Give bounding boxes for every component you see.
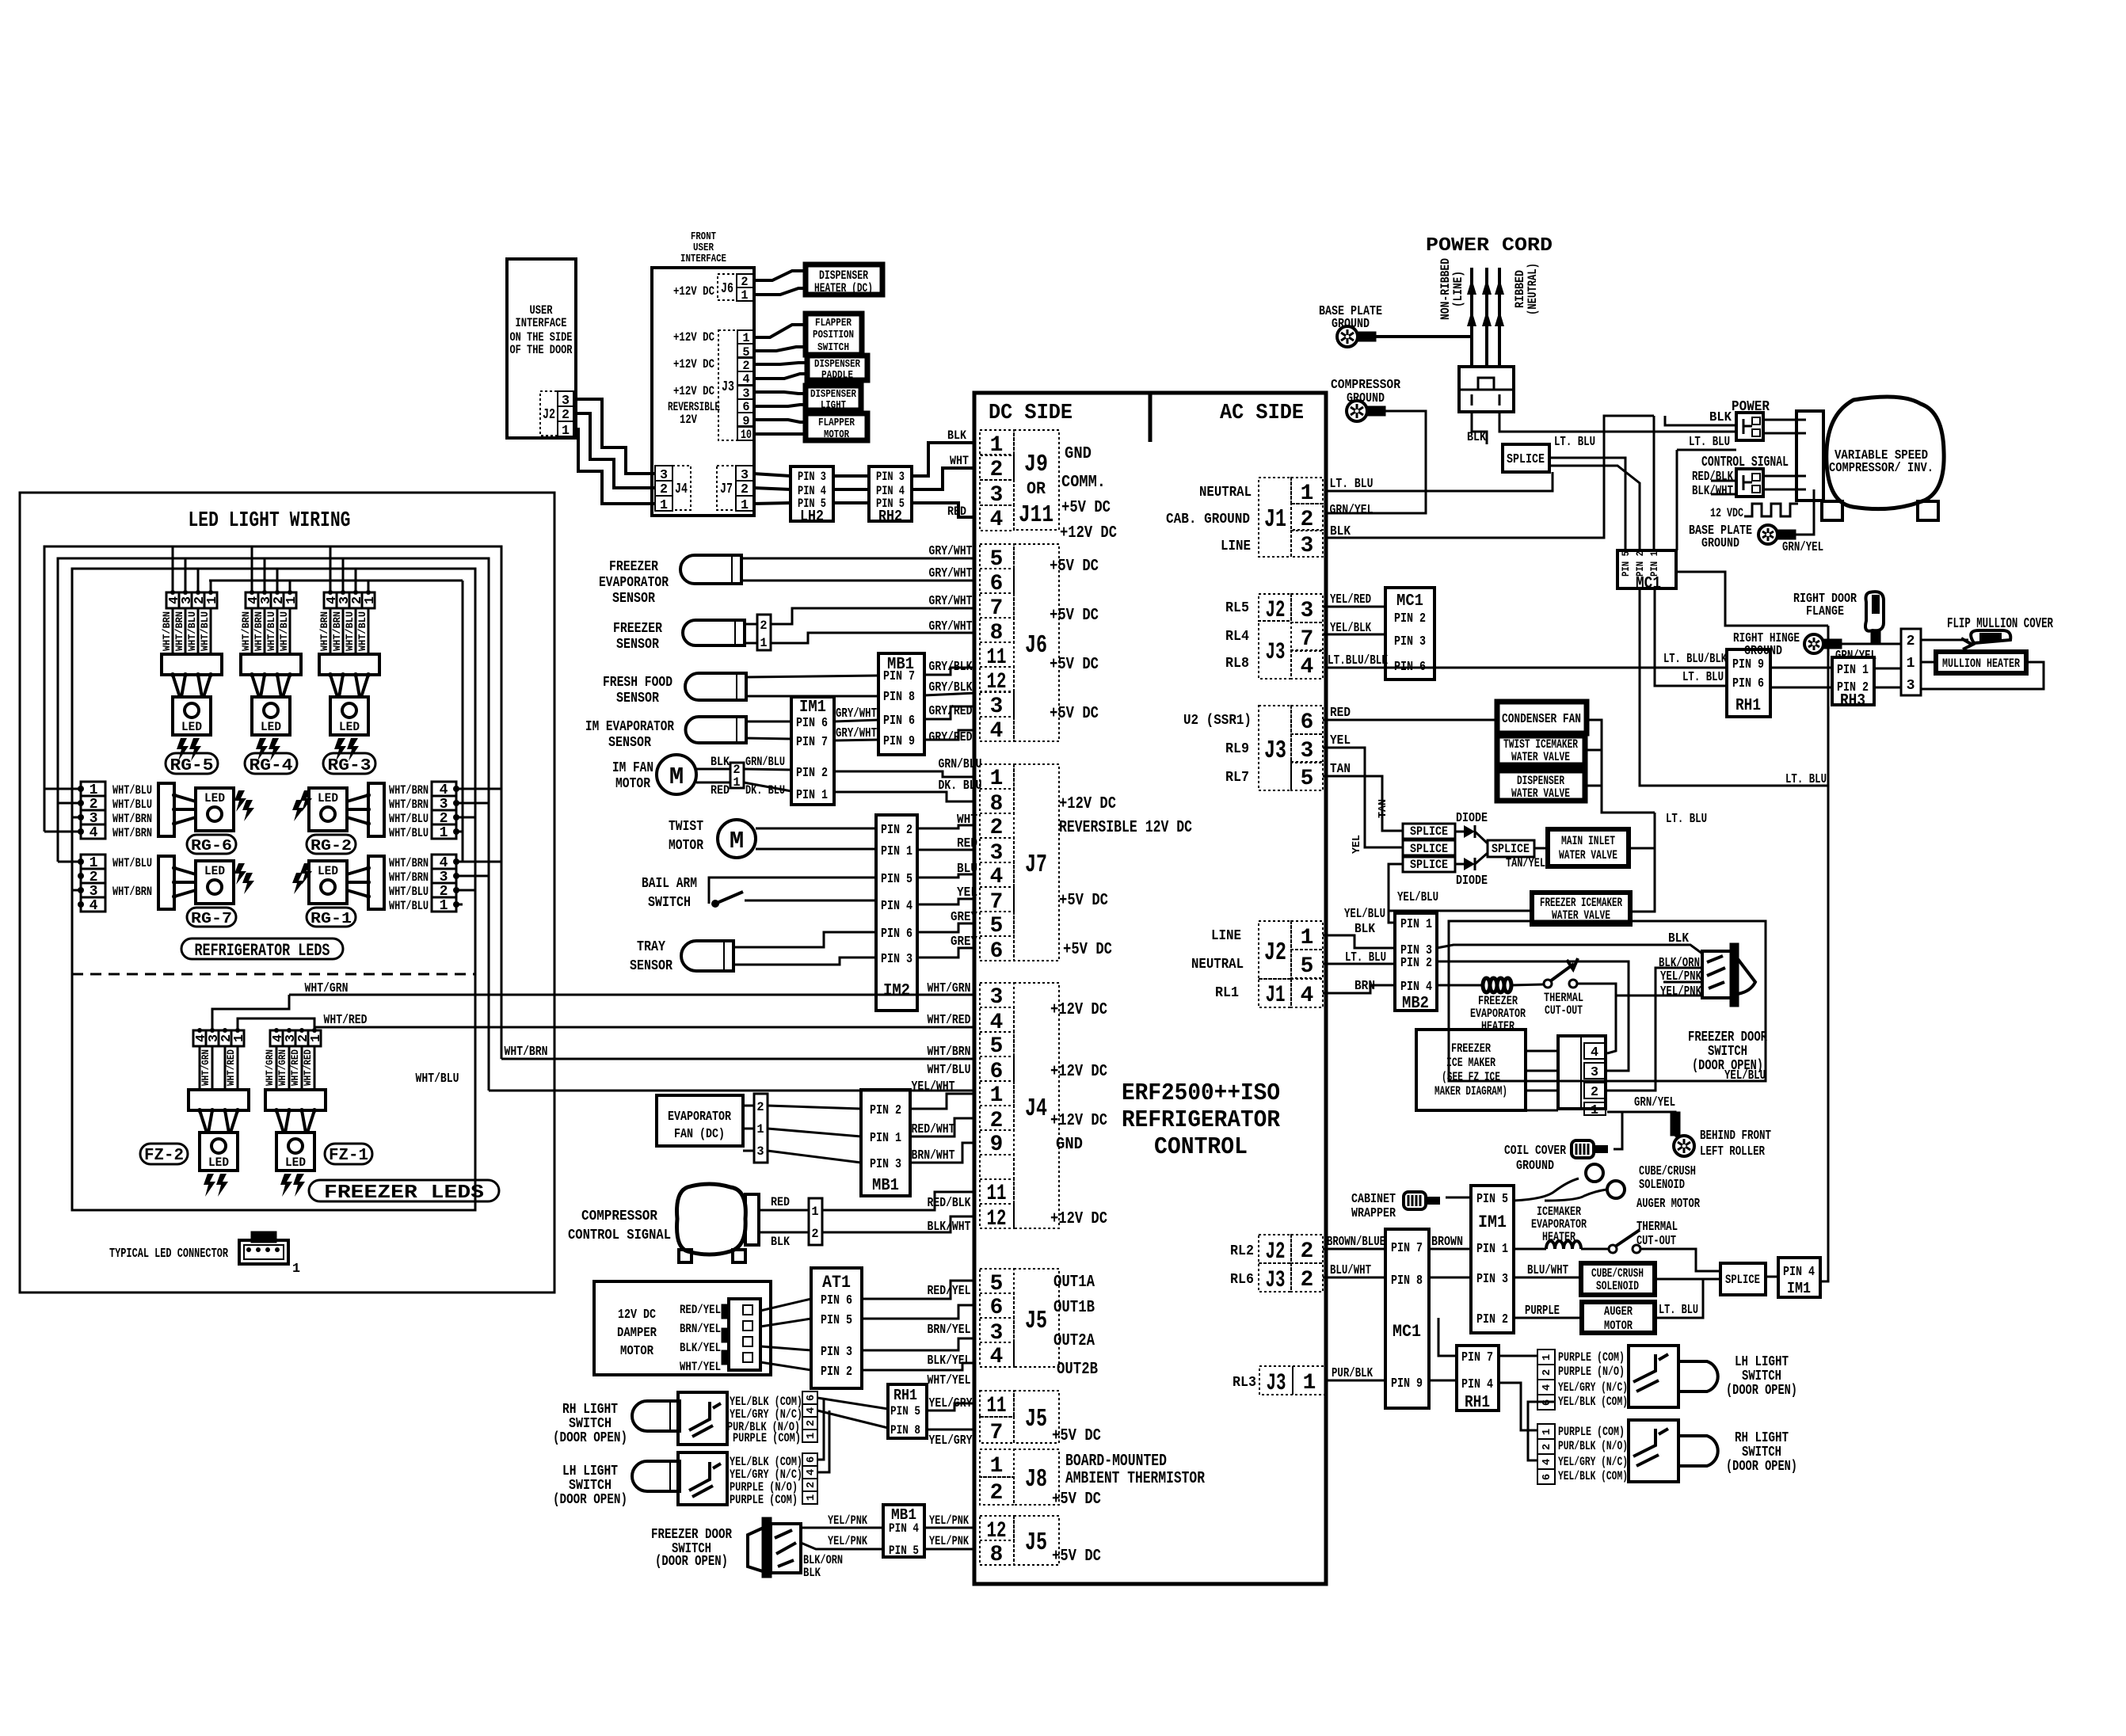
svg-text:WHT/BRN: WHT/BRN — [112, 812, 152, 826]
RH light switch switch blades — [689, 1402, 710, 1430]
RG-2 funnel wires — [347, 795, 368, 801]
svg-text:PIN 3: PIN 3 — [821, 1345, 852, 1360]
svg-text:FREEZER: FREEZER — [1451, 1041, 1492, 1056]
svg-text:GRY/BLK: GRY/BLK — [929, 660, 973, 675]
svg-text:1: 1 — [733, 775, 740, 790]
svg-text:EVAPORATOR: EVAPORATOR — [668, 1110, 731, 1125]
base plate ground lug top — [1337, 326, 1358, 347]
box DISPENSER PADDLE — [807, 356, 867, 380]
svg-text:DC SIDE: DC SIDE — [989, 401, 1073, 424]
RG-3 lightning bolts — [334, 738, 346, 761]
RG-2 wires to rails — [456, 788, 501, 790]
svg-text:YEL/PNK: YEL/PNK — [828, 1513, 868, 1528]
wire GRY/WHT J6 pin7 — [771, 608, 976, 624]
svg-text:LIGHT: LIGHT — [821, 399, 846, 412]
svg-text:WHT: WHT — [950, 454, 969, 468]
wire YEL/GRY J5 pin7 — [927, 1429, 976, 1431]
connector RG-6 pins 1234 — [81, 782, 105, 796]
RG-5 riser wires — [172, 546, 174, 592]
wires J7 to LH2 — [753, 474, 791, 476]
svg-text:WHT/RED: WHT/RED — [290, 1049, 301, 1086]
svg-text:7: 7 — [1301, 627, 1314, 652]
svg-text:+12V DC: +12V DC — [1050, 1063, 1107, 1081]
box FRONT USER INTERFACE — [652, 268, 754, 516]
svg-text:2: 2 — [805, 1420, 817, 1426]
wire RH3 pin2 to mullion cell3 — [1874, 687, 1901, 689]
svg-text:WHT/BLU: WHT/BLU — [389, 899, 429, 913]
wire MC1 pin1 down LT BLU to RH1 pin6 — [1655, 588, 1727, 686]
connector J5 board outputs — [980, 1269, 1014, 1293]
svg-text:+12V DC: +12V DC — [1050, 1112, 1107, 1130]
connector MC1 mid (relays) — [1385, 588, 1434, 680]
svg-text:GRY/WHT: GRY/WHT — [836, 706, 877, 721]
svg-text:WHT/BLU: WHT/BLU — [357, 611, 368, 651]
connector PIN 4 IM1 — [1778, 1258, 1820, 1297]
wires power connector to inverter bar — [1763, 419, 1796, 421]
svg-text:9: 9 — [990, 1133, 1004, 1157]
wire BLU/WHT MC1 pin8 to IM1 pin3 — [1429, 1277, 1471, 1279]
wires im evap sensor to IM1 — [746, 721, 791, 723]
wire BLK branch to MC1 pin1 — [1653, 416, 1655, 550]
wires evap fan to MB1 — [768, 1106, 861, 1109]
svg-text:3: 3 — [1591, 1065, 1598, 1080]
connector RG-4 pins 4321 — [246, 592, 258, 608]
mullion heater box — [1936, 652, 2026, 673]
RH switch stack cells — [1537, 1424, 1555, 1439]
svg-text:2: 2 — [1591, 1085, 1598, 1100]
svg-text:PIN 5: PIN 5 — [890, 1404, 920, 1418]
svg-text:WHT/RED: WHT/RED — [303, 1049, 314, 1086]
svg-text:M: M — [730, 828, 744, 855]
svg-text:WHT/BRN: WHT/BRN — [112, 826, 152, 840]
svg-text:2: 2 — [990, 1481, 1004, 1506]
svg-text:DK. BLU: DK. BLU — [939, 779, 982, 794]
svg-text:BRN/WHT: BRN/WHT — [912, 1148, 955, 1163]
svg-text:1: 1 — [292, 1262, 300, 1277]
wire RED J7 pin3 — [917, 849, 976, 851]
RG-5 lightning bolts — [177, 738, 189, 761]
svg-text:PUR/BLK: PUR/BLK — [1332, 1366, 1374, 1381]
base plate ground lug right — [1758, 525, 1777, 544]
svg-text:4: 4 — [990, 1345, 1004, 1369]
wire GRY/BLK J6 pin11 — [924, 668, 976, 675]
svg-text:OUT2B: OUT2B — [1057, 1361, 1098, 1379]
box USER INTERFACE ON THE SIDE OF THE DOOR — [507, 259, 576, 438]
svg-text:WHT/BLU: WHT/BLU — [416, 1072, 459, 1087]
svg-text:SENSOR: SENSOR — [612, 591, 655, 607]
svg-text:PIN 5: PIN 5 — [881, 872, 913, 887]
board DC/AC divider — [1149, 393, 1153, 442]
connector RG-1 pins 4321 — [432, 855, 456, 869]
svg-text:WHT/GRN: WHT/GRN — [928, 981, 971, 996]
svg-text:+5V DC: +5V DC — [1050, 656, 1099, 674]
wire BLK J2-1 to MB2 pin3 — [1323, 935, 1395, 948]
svg-text:BAIL ARM: BAIL ARM — [642, 876, 697, 892]
svg-text:+12V DC: +12V DC — [673, 384, 714, 398]
svg-text:RL4: RL4 — [1225, 629, 1249, 645]
svg-text:PIN 4: PIN 4 — [1783, 1265, 1815, 1280]
connector J3 board RL3 — [1259, 1366, 1293, 1395]
wire YEL/PNK switch to MB1 pin4 — [801, 1527, 883, 1529]
LED box RG-6 — [196, 788, 234, 831]
wire YEL/PNK fz door switch row4 — [1616, 995, 1702, 997]
svg-text:INTERFACE: INTERFACE — [680, 253, 726, 265]
svg-text:4: 4 — [90, 825, 98, 841]
svg-text:+5V DC: +5V DC — [1061, 499, 1111, 517]
svg-text:1: 1 — [205, 596, 220, 604]
svg-text:BLK: BLK — [1330, 524, 1351, 539]
svg-text:SWITCH: SWITCH — [1708, 1044, 1747, 1060]
svg-text:PIN 7: PIN 7 — [883, 669, 915, 684]
LED box RG-4 — [252, 697, 290, 735]
svg-text:BLK/YEL: BLK/YEL — [680, 1341, 721, 1355]
svg-text:RED: RED — [711, 783, 730, 798]
svg-text:+12V DC: +12V DC — [673, 357, 714, 371]
LED LIGHT WIRING outer box — [20, 493, 554, 1292]
svg-text:FLAPPER: FLAPPER — [815, 317, 852, 329]
svg-text:4: 4 — [1301, 655, 1314, 680]
box FLAPPER POSITION SWITCH — [806, 314, 862, 355]
FZ-1 lightning bolts — [280, 1174, 292, 1197]
svg-text:GRN/BLU: GRN/BLU — [745, 755, 785, 769]
behind front left roller ground — [1671, 1113, 1679, 1135]
svg-text:MB2: MB2 — [1402, 995, 1429, 1013]
svg-text:(SEE FZ ICE: (SEE FZ ICE — [1442, 1070, 1500, 1084]
RG-4 riser wires — [251, 546, 253, 592]
svg-text:MC1: MC1 — [1393, 1322, 1421, 1342]
svg-text:YEL/BLU: YEL/BLU — [1397, 890, 1438, 905]
svg-text:PIN 3: PIN 3 — [798, 470, 826, 484]
svg-text:GRY/BLK: GRY/BLK — [929, 680, 973, 695]
svg-text:NEUTRAL: NEUTRAL — [1191, 957, 1244, 973]
freezer door switch enclosure box — [1449, 921, 1766, 1081]
label oval REFRIGERATOR LEDS — [181, 938, 343, 959]
RG-4 funnel wires — [252, 675, 259, 697]
svg-text:+12V DC: +12V DC — [673, 330, 714, 345]
svg-text:PIN 3: PIN 3 — [1394, 634, 1426, 649]
LED box FZ-1 — [276, 1133, 314, 1171]
wire BLK into fz door switch — [1437, 945, 1702, 954]
svg-text:2: 2 — [990, 816, 1004, 840]
svg-text:GROUND: GROUND — [1332, 317, 1370, 332]
svg-text:+5V DC: +5V DC — [1063, 941, 1112, 959]
svg-text:SOLENOID: SOLENOID — [1639, 1178, 1685, 1193]
svg-text:FZ-1: FZ-1 — [329, 1147, 368, 1165]
svg-text:J3: J3 — [722, 379, 734, 395]
diode symbol bottom — [1464, 858, 1475, 870]
svg-text:GROUND: GROUND — [1516, 1159, 1554, 1174]
inverter terminal bar — [1796, 411, 1823, 501]
wire GREY J7 pin5 — [917, 923, 976, 932]
svg-text:SPLICE: SPLICE — [1492, 842, 1530, 856]
svg-text:LED: LED — [339, 720, 360, 734]
svg-text:PIN 1: PIN 1 — [870, 1131, 901, 1146]
svg-text:BLK: BLK — [947, 428, 967, 443]
FZ-2 receptacle bar — [189, 1090, 249, 1110]
svg-text:BOARD-MOUNTED: BOARD-MOUNTED — [1065, 1452, 1167, 1471]
svg-text:J8: J8 — [1025, 1464, 1047, 1494]
compressor ground lug — [1347, 401, 1367, 421]
svg-text:LED: LED — [285, 1155, 306, 1170]
LT BLU long vertical right side — [1820, 626, 1828, 1281]
svg-text:LT. BLU: LT. BLU — [1659, 1303, 1698, 1318]
FZ-2 funnel wires — [200, 1110, 207, 1133]
svg-text:WHT/BLU: WHT/BLU — [389, 826, 429, 840]
svg-text:WHT/RED: WHT/RED — [324, 1013, 368, 1028]
svg-text:YEL/PNK: YEL/PNK — [1660, 969, 1702, 984]
svg-text:4: 4 — [990, 719, 1004, 744]
svg-text:LINE: LINE — [1221, 539, 1251, 554]
svg-text:PIN 1: PIN 1 — [1649, 551, 1660, 577]
svg-text:4: 4 — [1301, 984, 1314, 1008]
svg-text:RH LIGHT: RH LIGHT — [1735, 1430, 1789, 1446]
svg-text:3: 3 — [990, 695, 1004, 719]
svg-text:12V: 12V — [680, 413, 698, 427]
svg-text:1: 1 — [1541, 1429, 1553, 1435]
svg-text:J2: J2 — [1264, 938, 1286, 967]
svg-text:WHT/YEL: WHT/YEL — [680, 1360, 721, 1374]
svg-text:PIN 4: PIN 4 — [1400, 980, 1432, 995]
svg-text:PIN 6: PIN 6 — [1732, 676, 1764, 691]
svg-text:GROUND: GROUND — [1701, 536, 1739, 551]
connector J7 board — [980, 764, 1014, 789]
RG-5 receptacle bar — [162, 654, 222, 675]
svg-text:WATER VALVE: WATER VALVE — [1511, 750, 1570, 764]
wire WHT RH2 to J9 pin2 — [912, 468, 976, 489]
connector RH3 — [1832, 657, 1874, 705]
svg-text:J7: J7 — [1025, 850, 1047, 879]
RG-4 lightning bolts — [256, 738, 268, 761]
coil cover ground lug — [1572, 1140, 1594, 1158]
svg-text:INTERFACE: INTERFACE — [516, 316, 567, 330]
svg-text:3: 3 — [990, 483, 1004, 508]
connector J5 board 11-7 — [980, 1391, 1014, 1417]
svg-text:LED: LED — [204, 864, 225, 878]
wire LT. BLU auger motor return — [1655, 1279, 1703, 1318]
svg-text:+5V DC: +5V DC — [1059, 892, 1108, 910]
svg-text:SWITCH: SWITCH — [569, 1416, 612, 1432]
wire BLK/ORN fz door switch to cell2 — [1607, 968, 1702, 1091]
wire YEL/PNK switch to MB1 pin5 — [801, 1543, 883, 1549]
svg-text:2: 2 — [811, 1227, 818, 1241]
cube/crush solenoid connector circles — [1586, 1164, 1603, 1182]
splice box 4 — [1488, 840, 1534, 857]
svg-text:J5: J5 — [1025, 1306, 1047, 1335]
wires J3 to devices — [754, 325, 806, 337]
FZ-1 funnel wires — [276, 1110, 284, 1133]
svg-text:PIN 6: PIN 6 — [821, 1293, 852, 1308]
svg-text:WHT/BRN: WHT/BRN — [319, 611, 330, 651]
svg-text:GRN/YEL: GRN/YEL — [1330, 503, 1374, 518]
svg-text:J3: J3 — [1267, 1370, 1286, 1396]
svg-text:SWITCH: SWITCH — [1742, 1369, 1781, 1384]
connector J5 board 12-8 — [980, 1516, 1014, 1540]
svg-text:WHT/BRN: WHT/BRN — [928, 1045, 971, 1060]
svg-text:1: 1 — [1301, 926, 1314, 950]
LED box RG-3 — [330, 697, 368, 735]
svg-text:J7: J7 — [720, 482, 733, 497]
svg-text:11: 11 — [987, 1182, 1007, 1206]
svg-text:BROWN/BLUE: BROWN/BLUE — [1327, 1235, 1385, 1250]
cabinet wrapper lug — [1404, 1192, 1426, 1209]
svg-text:1: 1 — [1303, 1371, 1316, 1395]
wire YEL/PNK MB1 to J5 pin12 — [924, 1527, 976, 1529]
label oval FZ-2 — [140, 1144, 188, 1164]
svg-text:+12V DC: +12V DC — [1050, 1210, 1107, 1228]
plug prong stubs to splice — [1472, 412, 1487, 444]
freezer door switch right blades — [1707, 956, 1723, 962]
wire cutout to splice right — [1640, 1249, 1720, 1271]
svg-text:RED: RED — [771, 1195, 790, 1209]
splice boxes x3 — [1403, 824, 1455, 839]
svg-text:J6: J6 — [1025, 630, 1047, 660]
svg-text:PIN 2: PIN 2 — [796, 766, 828, 781]
wire LT. BLU J1 pin1 to splice — [1326, 472, 1553, 491]
svg-text:PIN 1: PIN 1 — [1476, 1242, 1508, 1257]
label oval RG-6 — [187, 835, 236, 854]
wire MB2 pin2 to fz ice connector cell3 — [1437, 961, 1629, 1071]
connector J8 board — [980, 1449, 1014, 1477]
svg-text:11: 11 — [987, 1394, 1007, 1418]
svg-text:TWIST: TWIST — [669, 819, 703, 835]
svg-text:BLU/WHT: BLU/WHT — [1527, 1263, 1568, 1278]
svg-text:SWITCH: SWITCH — [1742, 1445, 1781, 1460]
connector RG-3 pins 4321 — [324, 592, 337, 608]
wire DK. BLU J7 pin8 — [834, 792, 976, 801]
svg-text:BLK/WHT: BLK/WHT — [928, 1220, 971, 1235]
svg-text:(DOOR OPEN): (DOOR OPEN) — [553, 1430, 627, 1446]
RG-3 pigtail wires — [330, 608, 332, 654]
svg-text:WHT/GRN: WHT/GRN — [305, 981, 349, 996]
svg-text:1: 1 — [363, 596, 378, 604]
wire YEL/BLU to MB2 pin1 — [1389, 911, 1395, 923]
svg-text:MOTOR: MOTOR — [620, 1344, 653, 1359]
wire WHT/RED to J4 pin4 — [314, 1026, 976, 1029]
RG-7 lightning bolts — [234, 863, 246, 885]
svg-text:GRY/WHT: GRY/WHT — [929, 619, 973, 634]
wire solenoid to splice — [1655, 1278, 1720, 1281]
svg-text:RL2: RL2 — [1230, 1243, 1254, 1259]
svg-text:(DOOR OPEN): (DOOR OPEN) — [553, 1492, 627, 1508]
svg-text:SWITCH: SWITCH — [817, 341, 849, 354]
svg-text:IM1: IM1 — [799, 699, 826, 717]
wires twist motor to IM2 — [756, 828, 876, 830]
svg-text:WHT/BLU: WHT/BLU — [112, 798, 152, 812]
svg-text:1: 1 — [562, 424, 570, 439]
LH light switch box right — [1629, 1346, 1678, 1407]
compressor inv feet — [1822, 501, 1842, 520]
connector J2/J3 board RL2 RL6 — [1259, 1235, 1291, 1263]
svg-text:LEFT ROLLER: LEFT ROLLER — [1700, 1144, 1765, 1159]
mullion connector 2/1/3 — [1901, 629, 1921, 695]
svg-text:LINE: LINE — [1211, 928, 1241, 944]
svg-text:LT. BLU: LT. BLU — [1666, 812, 1707, 827]
wire BROWN MC1 pin7 to IM1 pin1 — [1429, 1248, 1471, 1251]
svg-text:5: 5 — [990, 914, 1004, 938]
connector J2/J1 board LINE NEUTRAL RL1 — [1259, 921, 1291, 979]
svg-text:IM1: IM1 — [1787, 1280, 1811, 1297]
svg-text:YEL: YEL — [1351, 835, 1363, 854]
RG-4 pigtail wires — [251, 608, 253, 654]
12V DC damper motor box — [594, 1281, 771, 1375]
freezer door switch left symbol — [748, 1527, 765, 1572]
svg-text:LT. BLU: LT. BLU — [1330, 477, 1374, 492]
svg-text:SENSOR: SENSOR — [630, 958, 672, 974]
RG-3 receptacle bar — [319, 654, 379, 675]
svg-text:J4: J4 — [1025, 1094, 1047, 1123]
svg-text:3: 3 — [990, 985, 1004, 1010]
LED box RG-7 — [196, 861, 234, 904]
svg-text:IM FAN: IM FAN — [612, 760, 653, 776]
svg-text:DIODE: DIODE — [1456, 874, 1488, 889]
svg-text:PIN 3: PIN 3 — [870, 1157, 901, 1172]
svg-text:RG-2: RG-2 — [311, 837, 352, 855]
freezer sensor inline connector 2/1 — [757, 615, 771, 650]
svg-text:GRY/WHT: GRY/WHT — [929, 544, 973, 559]
label oval RG-1 — [307, 908, 356, 927]
RG-1 lightning bolts — [300, 863, 312, 885]
svg-text:NEUTRAL: NEUTRAL — [1199, 485, 1252, 501]
svg-text:PIN 4: PIN 4 — [881, 899, 913, 914]
svg-text:SWITCH: SWITCH — [569, 1478, 612, 1494]
svg-text:6: 6 — [990, 1296, 1004, 1320]
svg-text:COIL COVER: COIL COVER — [1504, 1144, 1566, 1159]
svg-text:LT. BLU/BLK: LT. BLU/BLK — [1663, 652, 1728, 667]
svg-text:SPLICE: SPLICE — [1410, 858, 1448, 872]
RG-5 pigtail wires — [172, 608, 174, 654]
svg-text:LED: LED — [318, 791, 338, 805]
svg-text:2: 2 — [1541, 1444, 1553, 1450]
svg-text:(LINE): (LINE) — [1451, 271, 1465, 307]
svg-text:2: 2 — [1301, 1268, 1314, 1292]
svg-text:RH1: RH1 — [893, 1387, 917, 1404]
svg-text:PIN 5: PIN 5 — [889, 1544, 919, 1558]
svg-text:LED LIGHT WIRING: LED LIGHT WIRING — [189, 508, 351, 532]
svg-text:12 VDC: 12 VDC — [1710, 506, 1743, 520]
LED box RG-1 — [309, 861, 347, 904]
svg-text:RG-5: RG-5 — [170, 757, 214, 775]
svg-text:IM1: IM1 — [1478, 1213, 1507, 1232]
svg-text:COMPRESSOR: COMPRESSOR — [581, 1209, 657, 1224]
svg-text:BRN/YEL: BRN/YEL — [928, 1323, 971, 1338]
right door flange symbol — [1865, 592, 1884, 631]
svg-text:WHT/BLU: WHT/BLU — [266, 611, 277, 651]
wire BRN/WHT J4 pin9 — [910, 1143, 976, 1163]
connector AT1 — [811, 1268, 862, 1388]
svg-text:5: 5 — [990, 1034, 1004, 1059]
im evaporator sensor bulb — [686, 717, 746, 743]
connector MB1 evaporator fan — [861, 1090, 910, 1196]
svg-text:SPLICE: SPLICE — [1507, 452, 1545, 467]
svg-text:MULLION HEATER: MULLION HEATER — [1942, 657, 2021, 671]
RG-3 funnel wires — [330, 675, 337, 697]
svg-text:TAN: TAN — [1377, 799, 1389, 818]
wire BRN/YEL J5 pin6 — [862, 1305, 976, 1319]
FZ-1 receptacle bar — [265, 1090, 326, 1110]
svg-text:1: 1 — [440, 825, 448, 841]
svg-text:RED: RED — [1330, 706, 1351, 721]
svg-text:YEL/PNK: YEL/PNK — [1660, 984, 1702, 999]
wire YEL/PNK fz door switch row3 — [1663, 981, 1702, 984]
svg-text:GRY/RED: GRY/RED — [929, 704, 973, 719]
svg-text:WHT: WHT — [957, 813, 977, 828]
freezer evaporator heater coil — [1437, 984, 1483, 987]
connector IM2 — [876, 815, 917, 1011]
svg-text:PIN 2: PIN 2 — [1635, 551, 1646, 577]
svg-text:WHT/BRN: WHT/BRN — [505, 1045, 548, 1060]
svg-text:LT. BLU: LT. BLU — [1345, 950, 1386, 965]
svg-text:12V DC: 12V DC — [618, 1308, 656, 1323]
